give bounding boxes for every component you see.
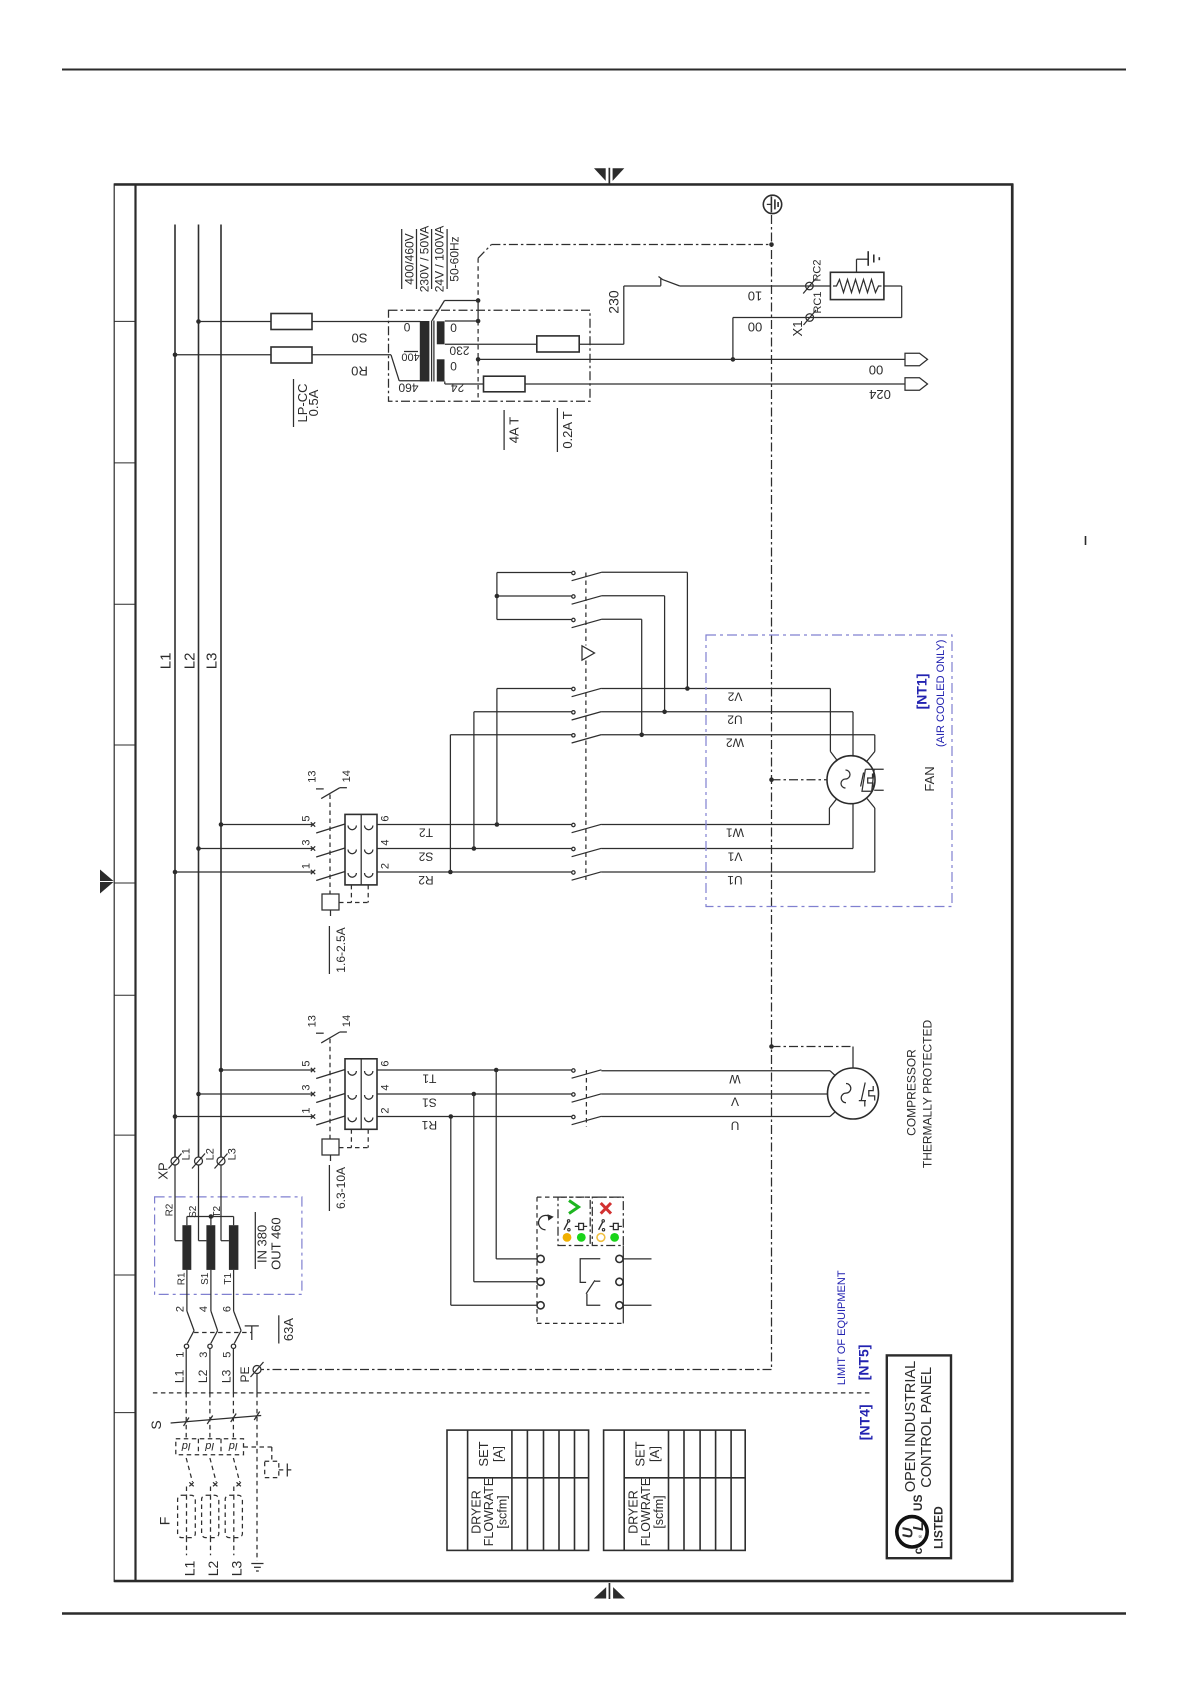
svg-text:S: S <box>148 1420 164 1429</box>
autotransformer boundary box <box>155 1197 302 1295</box>
svg-text:OUT 460: OUT 460 <box>268 1217 283 1270</box>
contact W / wire W <box>572 1069 838 1086</box>
KM2 feed L2 pole3 <box>196 846 345 857</box>
svg-text:T1: T1 <box>223 1273 234 1285</box>
svg-text:4: 4 <box>198 1306 210 1312</box>
svg-text:14: 14 <box>341 1015 353 1027</box>
svg-text:00: 00 <box>869 362 883 377</box>
wire S0 <box>196 319 420 345</box>
NT1 boundary box <box>706 635 952 907</box>
wire T1 <box>377 1068 572 1086</box>
label IN 380 OUT 460 <box>255 1212 284 1270</box>
svg-text:T1: T1 <box>422 1071 436 1085</box>
svg-text:US: US <box>911 1494 925 1511</box>
svg-text:[A]: [A] <box>647 1446 662 1462</box>
KM1 feed L1 pole1 <box>173 1114 345 1125</box>
svg-text:230: 230 <box>449 344 469 358</box>
Q1 pin labels 2 4 6 <box>174 1306 233 1312</box>
svg-text:5: 5 <box>300 815 312 821</box>
svg-text:50-60Hz: 50-60Hz <box>448 236 462 281</box>
KM2 pin labels <box>300 815 391 869</box>
svg-text:FLOWRATE: FLOWRATE <box>639 1478 653 1547</box>
incoming line stubs <box>186 1349 233 1393</box>
switch S blade <box>148 1412 261 1430</box>
winding labels bottom <box>177 1272 235 1285</box>
svg-text:L3: L3 <box>228 1561 244 1577</box>
wire 230V-0 terminal <box>445 320 478 322</box>
KM1 feed L3 pole5 <box>219 1068 345 1079</box>
svg-text:6: 6 <box>379 1060 391 1066</box>
svg-text:L3: L3 <box>204 653 221 670</box>
controller icon box run <box>558 1197 590 1245</box>
svg-text:460: 460 <box>398 380 418 394</box>
KM2 feed L3 pole5 <box>219 822 345 833</box>
svg-text:W2: W2 <box>726 736 744 750</box>
KM1 pin labels <box>300 1060 391 1113</box>
screen earth link <box>432 301 478 321</box>
UL listing box <box>887 1355 951 1558</box>
svg-text:4A T: 4A T <box>507 417 522 444</box>
svg-text:24: 24 <box>451 381 465 395</box>
svg-text:230V / 50VA: 230V / 50VA <box>418 226 432 293</box>
KM1 aux contact 13-14 <box>306 1015 352 1043</box>
svg-text:5: 5 <box>222 1352 234 1358</box>
Q1 link + handle <box>194 1326 259 1340</box>
delta symbol <box>582 646 595 660</box>
fuse 4A T <box>537 336 579 352</box>
svg-text:400: 400 <box>401 351 419 363</box>
label 6.3-10A <box>329 1165 348 1211</box>
svg-text:S1: S1 <box>422 1095 437 1109</box>
controller terminals right <box>616 1255 623 1309</box>
label 4A T <box>504 410 521 450</box>
fan PE stub <box>769 777 827 782</box>
svg-text:SET: SET <box>476 1441 491 1466</box>
top rule <box>62 69 1126 71</box>
transformer boundary box <box>389 310 591 401</box>
svg-text:4: 4 <box>379 839 391 845</box>
node PE top <box>769 242 774 247</box>
svg-text:L2: L2 <box>196 1369 210 1383</box>
PE rail bottom corner <box>262 1369 772 1371</box>
KM1 thermal overload <box>322 1129 368 1161</box>
svg-text:L1: L1 <box>173 1369 187 1383</box>
controller box <box>537 1197 623 1323</box>
node 230-0 <box>476 319 481 324</box>
contact C <box>572 618 644 737</box>
PE drop link (dashed) <box>477 258 479 401</box>
svg-text:4: 4 <box>379 1084 391 1090</box>
PE rail vertical <box>771 215 773 1370</box>
svg-text:V1: V1 <box>727 849 742 863</box>
transformer secondary 24V winding <box>437 359 445 381</box>
KM1 breaker block <box>345 1059 377 1130</box>
compressor motor M1 <box>828 1068 879 1119</box>
wire 0 (00) <box>478 359 905 377</box>
svg-text:V: V <box>731 1094 739 1108</box>
svg-text:R1: R1 <box>177 1272 188 1285</box>
centering mark top <box>594 168 624 185</box>
terminal XP-L1 <box>169 1148 193 1168</box>
svg-text:1: 1 <box>300 1107 312 1113</box>
svg-text:W: W <box>729 1072 741 1086</box>
svg-text:LIMIT OF EQUIPMENT: LIMIT OF EQUIPMENT <box>836 1270 848 1385</box>
svg-text:3: 3 <box>300 839 312 845</box>
svg-text:R1: R1 <box>421 1118 437 1132</box>
svg-text:COMPRESSOR: COMPRESSOR <box>905 1049 919 1136</box>
svg-text:Id: Id <box>228 1440 238 1452</box>
svg-text:FLOWRATE: FLOWRATE <box>482 1478 496 1547</box>
KM2 thermal overload <box>322 885 368 916</box>
svg-text:3: 3 <box>198 1352 210 1358</box>
contact V / wire V <box>572 1093 827 1109</box>
svg-text:CONTROL PANEL: CONTROL PANEL <box>919 1367 935 1488</box>
svg-text:L3: L3 <box>220 1369 234 1383</box>
svg-text:1.6-2.5A: 1.6-2.5A <box>334 927 348 972</box>
labels L1 L2 L3 supply <box>173 1366 252 1383</box>
fuse F2 (R0) <box>271 347 312 363</box>
svg-text:400/460V: 400/460V <box>403 233 417 284</box>
wires XP to windings <box>175 1165 229 1241</box>
contact F / wire W2 <box>572 734 875 761</box>
svg-text:T2: T2 <box>212 1206 223 1218</box>
svg-text:0.5A: 0.5A <box>306 389 321 416</box>
KM1 feed L2 pole3 <box>196 1092 345 1103</box>
svg-text:Id: Id <box>204 1440 214 1452</box>
terminal XP-L3 <box>215 1148 239 1168</box>
svg-text:R2: R2 <box>418 873 434 887</box>
svg-text:24V / 100VA: 24V / 100VA <box>433 226 447 293</box>
connector arrow 00 <box>905 353 928 366</box>
controller icon box stop <box>592 1197 623 1245</box>
svg-text:PE: PE <box>238 1366 252 1382</box>
svg-text:3: 3 <box>300 1084 312 1090</box>
wire W1 to motor <box>601 799 836 839</box>
node: screen/PE junction <box>476 298 481 303</box>
wire 10 <box>680 286 831 303</box>
terminal RC2 <box>803 259 823 293</box>
svg-text:c: c <box>911 1547 925 1554</box>
wire U1 to motor <box>601 799 874 887</box>
transformer T1 primary winding <box>420 321 430 382</box>
controller terminals left <box>537 1255 544 1309</box>
transformer secondary 230V winding <box>437 321 445 344</box>
svg-text:U2: U2 <box>727 713 743 727</box>
contact E / wire U2 <box>572 711 853 756</box>
KM2 feed L1 pole1 <box>173 870 345 881</box>
svg-text:L1: L1 <box>181 1561 197 1577</box>
PE symbol <box>763 195 781 213</box>
controller internal relay contact <box>580 1259 600 1306</box>
labels L1 L2 L3 bottom <box>181 1561 244 1577</box>
centering mark bottom <box>594 1583 625 1599</box>
svg-text:L2: L2 <box>182 653 199 670</box>
Q1 pin labels 1 3 5 <box>175 1352 234 1358</box>
bus L3 <box>220 225 222 1158</box>
contact A <box>572 571 690 691</box>
label LP-CC 0.5A <box>294 379 322 427</box>
node 24-0 <box>476 357 481 362</box>
svg-text:6: 6 <box>221 1306 233 1312</box>
svg-text:5: 5 <box>300 1060 312 1066</box>
svg-text:0.2A T: 0.2A T <box>560 411 575 448</box>
svg-text:XP: XP <box>156 1162 171 1179</box>
svg-text:[NT4]: [NT4] <box>857 1404 873 1440</box>
svg-text:U1: U1 <box>727 873 743 887</box>
svg-text:(AIR COOLED ONLY): (AIR COOLED ONLY) <box>935 640 947 747</box>
wire RC return <box>733 286 902 359</box>
wire S1 <box>377 1092 572 1110</box>
stub F feed <box>450 735 571 872</box>
svg-text:[NT5]: [NT5] <box>856 1345 872 1381</box>
compressor PE stub <box>769 1044 853 1068</box>
winding labels top <box>164 1203 223 1218</box>
wire R2/U1 <box>377 870 572 887</box>
fuses F <box>156 1487 242 1556</box>
stray mark <box>1085 536 1087 545</box>
svg-text:L2: L2 <box>204 1148 216 1160</box>
svg-text:2: 2 <box>379 1107 391 1113</box>
svg-text:X1: X1 <box>790 321 805 337</box>
bus L1 <box>174 225 176 1158</box>
frame fold marks <box>114 321 135 1412</box>
RC earth <box>857 251 880 272</box>
contact B <box>572 595 667 714</box>
svg-text:L1: L1 <box>181 1148 193 1160</box>
svg-text:1: 1 <box>300 863 312 869</box>
svg-text:[scfm]: [scfm] <box>495 1495 509 1528</box>
supply lines below limit <box>186 1393 257 1561</box>
svg-text:S2: S2 <box>418 849 433 863</box>
RC suppressor R <box>830 272 884 299</box>
table dryer flowrate left <box>447 1430 589 1550</box>
svg-text:RC2: RC2 <box>811 259 823 281</box>
wire V1 to motor <box>601 804 853 864</box>
limit of equipment dashed line <box>153 1392 871 1394</box>
svg-text:R0: R0 <box>351 363 368 378</box>
svg-text:W1: W1 <box>726 825 744 839</box>
svg-text:[scfm]: [scfm] <box>652 1495 666 1528</box>
star bridge top <box>187 1214 234 1225</box>
svg-text:024: 024 <box>869 387 891 402</box>
svg-text:V2: V2 <box>727 689 742 703</box>
svg-text:L1: L1 <box>158 653 175 670</box>
controller right stub wires <box>623 1259 651 1305</box>
svg-text:R2: R2 <box>164 1203 175 1216</box>
Q1 blades and hinges <box>184 1331 241 1349</box>
svg-text:S1: S1 <box>200 1272 211 1285</box>
bottom rule <box>62 1612 1126 1614</box>
svg-text:230: 230 <box>605 290 621 314</box>
svg-text:[NT1]: [NT1] <box>914 674 930 710</box>
KM2 aux contact 13-14 <box>306 770 353 798</box>
terminal RC1 <box>790 291 824 336</box>
wire R0 <box>173 353 421 381</box>
svg-text:S0: S0 <box>352 330 368 345</box>
svg-text:6.3-10A: 6.3-10A <box>334 1167 348 1209</box>
svg-text:6: 6 <box>379 815 391 821</box>
transformer core screen <box>431 321 433 382</box>
svg-text:2: 2 <box>379 863 391 869</box>
svg-text:2: 2 <box>174 1306 186 1312</box>
trip coil link <box>244 1447 294 1478</box>
svg-text:SET: SET <box>633 1441 648 1466</box>
contact D / wire V2 <box>572 687 837 760</box>
bus L2 <box>198 225 200 1158</box>
wire 230 <box>445 286 661 344</box>
star bridge stubs <box>495 573 572 620</box>
svg-text:F: F <box>156 1517 172 1526</box>
label 63A <box>279 1315 296 1343</box>
svg-text:0: 0 <box>450 359 457 373</box>
svg-text:OPEN INDUSTRIAL: OPEN INDUSTRIAL <box>903 1361 919 1492</box>
svg-text:L2: L2 <box>205 1561 221 1577</box>
fan contacts on lower wires <box>572 823 602 880</box>
contact U / wire U <box>572 1110 838 1132</box>
svg-text:0: 0 <box>403 320 410 334</box>
stub E feed <box>474 712 572 849</box>
svg-text:L: L <box>910 1522 927 1531</box>
trip blades <box>186 1458 241 1486</box>
label 0.2A T <box>557 408 575 452</box>
wire T2/W1 <box>377 822 572 839</box>
residual trip block Id <box>176 1439 244 1455</box>
svg-text:00: 00 <box>748 319 762 334</box>
ground symbol <box>251 1564 263 1572</box>
svg-text:[A]: [A] <box>491 1446 506 1462</box>
table dryer flowrate right <box>604 1430 746 1550</box>
svg-text:14: 14 <box>341 770 353 782</box>
centering mark left <box>100 870 114 894</box>
svg-text:0: 0 <box>450 320 457 334</box>
svg-text:LISTED: LISTED <box>931 1506 945 1549</box>
connector arrow 024 <box>905 378 928 391</box>
svg-text:Id: Id <box>181 1440 191 1452</box>
door switch on wire 10 <box>659 277 680 287</box>
KM1 aux link dashed <box>329 1039 331 1139</box>
contactor link dashed (fan) <box>585 573 587 881</box>
terminal PE <box>251 1362 264 1393</box>
node 00 tap <box>731 357 736 362</box>
wire R1 <box>377 1114 572 1132</box>
svg-text:IN 380: IN 380 <box>255 1225 270 1263</box>
svg-text:U: U <box>731 1118 740 1132</box>
svg-text:RC1: RC1 <box>812 291 824 313</box>
fuse 0.2A T <box>484 376 526 392</box>
svg-text:13: 13 <box>306 1015 318 1027</box>
svg-text:T2: T2 <box>419 825 433 839</box>
svg-text:L3: L3 <box>226 1148 238 1160</box>
svg-text:10: 10 <box>748 288 762 303</box>
fuse F1 (S0) <box>271 314 312 330</box>
stub D feed <box>497 689 572 825</box>
terminal XP-L2 <box>192 1148 216 1168</box>
wires to controller left terminals <box>451 1070 537 1305</box>
rotation arrow <box>539 1215 551 1229</box>
label 1.6-2.5A <box>329 926 348 974</box>
fan motor M2 <box>827 756 884 804</box>
KM2 breaker block <box>345 814 377 885</box>
svg-text:63A: 63A <box>281 1318 296 1341</box>
drawing frame border <box>114 184 1013 1582</box>
UL logo <box>897 1494 945 1554</box>
svg-text:1: 1 <box>175 1352 187 1358</box>
autotransformer winding bars <box>182 1225 238 1270</box>
KM1 contact link dashed <box>585 1070 587 1127</box>
svg-text:FAN: FAN <box>922 766 937 791</box>
disconnect Q1 pole wires <box>187 1270 241 1331</box>
PE dash-dot corner to rail <box>478 245 771 259</box>
svg-text:THERMALLY PROTECTED: THERMALLY PROTECTED <box>921 1020 935 1169</box>
wire S2/V1 <box>377 846 572 863</box>
transformer T ratings label <box>402 226 462 293</box>
svg-text:13: 13 <box>306 770 318 782</box>
wire 24 (024) <box>445 382 905 402</box>
KM2 aux link dashed <box>329 795 331 895</box>
